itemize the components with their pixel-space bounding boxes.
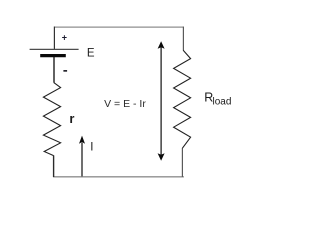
svg-text:E: E (87, 48, 95, 60)
svg-text:V = E - Ir: V = E - Ir (104, 98, 146, 110)
svg-text:+: + (62, 33, 67, 43)
svg-text:I: I (90, 141, 93, 153)
svg-text:load: load (213, 96, 232, 107)
svg-text:r: r (69, 111, 74, 126)
